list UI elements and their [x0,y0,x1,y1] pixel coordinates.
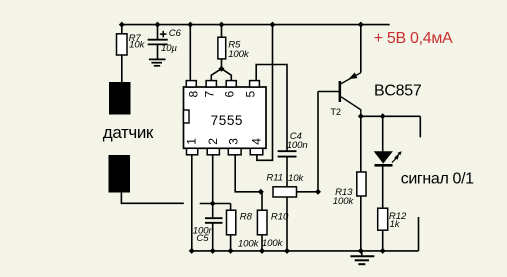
junction R13/ground rail [358,248,364,254]
wire T2 collector node horizontal [361,115,421,117]
svg-text:10µ: 10µ [161,43,177,54]
wire R5 bottom lead [221,59,223,69]
wire R8 bottom lead [230,235,232,251]
wire LED cathode to R12 [382,166,384,208]
wire trigger node horizontal [200,203,231,205]
svg-text:100k: 100k [333,196,355,207]
capacitor C4 [278,131,308,156]
junction trigger node pin2/C5 [210,201,216,207]
junction R7/VCC rail [119,22,125,28]
svg-text:100n: 100n [287,140,308,151]
sensor electrode lower [109,155,131,193]
junction T2 emitter/VCC rail [358,22,364,28]
wire sensor lower electrode lead [121,192,183,203]
wire R10 bottom lead [261,235,263,251]
resistor R7 [117,33,146,55]
LED D1 [374,151,402,166]
junction pin8/VCC rail [187,22,193,28]
wire C6 top lead [157,25,159,39]
svg-text:6: 6 [223,91,237,98]
svg-text:3: 3 [227,138,241,145]
junction pin1/ground rail [189,248,195,254]
svg-text:T2: T2 [331,107,342,117]
resistor R5 [218,37,250,60]
ground main [350,256,374,264]
wire R5 split to pin6 [222,69,232,81]
transistor T2 [339,72,361,116]
wire pin2 down through node [212,155,214,218]
svg-text:7: 7 [203,91,217,98]
svg-text:5: 5 [244,91,258,98]
wire top power rail [122,24,390,26]
junction R11 left / R10 top node [258,189,264,195]
junction R12/ground rail [380,248,386,254]
ground C6 [149,59,166,65]
svg-text:R11: R11 [266,173,283,184]
wire T2 emitter vertical [360,25,362,73]
svg-text:10k: 10k [129,40,145,51]
svg-text:7555: 7555 [211,113,243,128]
svg-text:100k: 100k [262,238,284,249]
wire T2 base horizontal [318,91,339,93]
svg-text:сигнал 0/1: сигнал 0/1 [401,171,474,188]
wire pin1 to ground rail [191,155,193,251]
capacitor C6 [148,28,182,54]
junction R5/VCC rail [219,22,225,28]
wire R7 bottom lead to electrode [121,55,123,83]
svg-text:датчик: датчик [103,123,154,142]
resistor R13 [333,172,366,207]
wire R5 split to pin7 [211,69,221,81]
svg-text:BC857: BC857 [374,82,422,99]
wire ground stub [361,251,363,256]
svg-text:R8: R8 [240,211,253,222]
wire R5 top lead [221,25,223,38]
svg-text:2: 2 [206,138,220,145]
wire C4 bottom to ground rail [286,157,288,251]
junction R10/ground rail [259,248,265,254]
wire signal upper stub [419,116,421,137]
wire C6 bottom lead to ground [157,45,159,59]
svg-text:C5: C5 [196,233,209,244]
wire T2 base vertical [317,92,319,192]
IC pin boxes top [186,81,259,87]
wire R10 top lead [261,192,263,210]
svg-text:C6: C6 [169,28,182,39]
svg-text:10k: 10k [288,173,304,184]
svg-text:8: 8 [186,91,200,98]
wire signal lower stub [418,217,420,251]
svg-text:4: 4 [250,138,264,145]
wire bottom ground rail [192,250,419,252]
junction C6/VCC rail [155,22,161,28]
junction collector node / LED [380,113,386,119]
wire pin8 to rail [189,25,191,81]
junction R11 right / T2 base node [315,189,321,195]
svg-text:1: 1 [184,138,198,145]
sensor electrode upper [109,82,131,115]
wire R7 top lead [121,25,123,34]
svg-text:1k: 1k [390,219,401,230]
svg-text:R10: R10 [271,211,289,222]
junction R5 to pins 7-6 [219,66,225,72]
svg-text:100k: 100k [238,239,260,250]
IC U1 7555 body [184,87,267,148]
wire LED anode lead [382,116,384,151]
resistor R11 [266,173,304,198]
resistor R10 [257,210,289,249]
resistor R8 [227,210,260,249]
wire pin5 bridge to C4 [256,65,287,152]
wire R11 to T2 base node [297,191,319,193]
wire R8 top corner lead [230,204,232,211]
junction C5/ground rail [210,248,216,254]
junction T2 collector / R13 [358,113,364,119]
capacitor C5 [193,218,223,244]
svg-text:+ 5В 0,4мА: + 5В 0,4мА [374,30,453,47]
wire pin3 to R11 node [235,155,261,192]
junction C4/ground rail [284,248,290,254]
resistor R12 [378,208,407,230]
junction pin4 wire/VCC rail [270,22,276,28]
svg-text:100k: 100k [228,49,250,60]
wire pin4 to rail [257,25,273,161]
wire C5 bottom lead [212,223,214,251]
wire R12 bottom lead [382,230,384,251]
wire R13 bottom lead [360,196,362,251]
wire R13 top lead [360,116,362,172]
IC pin boxes bottom [187,148,263,155]
junction R8/ground rail [228,248,234,254]
